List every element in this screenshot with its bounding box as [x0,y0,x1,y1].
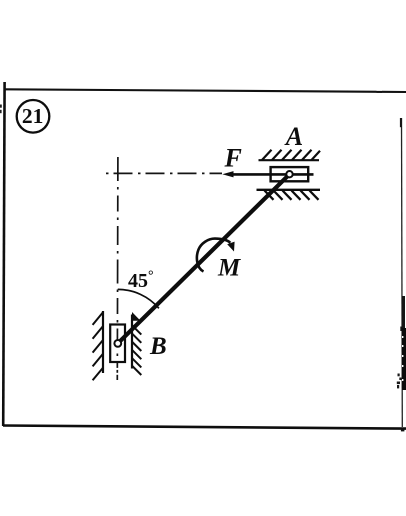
white notches making dotted tail under B block [116,368,119,370]
svg-text:B: B [149,333,167,360]
moment M arrowhead [227,242,234,252]
force F arrowhead [222,171,233,177]
support B right wall hatching [132,325,142,375]
frame left border [3,82,4,426]
top border break [377,88,383,91]
vertical dash-dot centerline [116,157,119,380]
svg-text:45°: 45° [128,269,154,293]
svg-text:21: 21 [22,104,44,128]
svg-text:A: A [284,122,303,151]
force F line [230,173,314,176]
support A lower hatching [265,191,319,200]
bottom-right nubs below border [401,429,405,431]
support B right wall line [131,315,133,369]
pin at A [286,171,292,177]
support B slider block [110,325,125,363]
left edge specks [0,105,2,108]
moment M arc [197,239,230,272]
right border ink blob [402,296,405,330]
frame top border [4,89,406,92]
support B right wall wedge [132,312,141,321]
support B left wall hatching [93,312,103,380]
rod AB [118,174,290,343]
circled figure number 21 [17,100,50,133]
svg-text:F: F [224,144,242,173]
support A upper hatching [262,150,320,160]
45-degree angle arc [118,289,159,308]
right border specks [398,374,400,377]
support B left wall line [102,311,104,373]
svg-text:M: M [217,254,241,281]
horizontal dash-dot centerline [106,172,222,174]
support A slider block [271,167,309,181]
support A lower rail line [257,189,321,191]
support A upper rail line [259,159,320,161]
pin at B [114,340,121,347]
frame right border [401,118,404,427]
frame bottom border [3,426,406,429]
